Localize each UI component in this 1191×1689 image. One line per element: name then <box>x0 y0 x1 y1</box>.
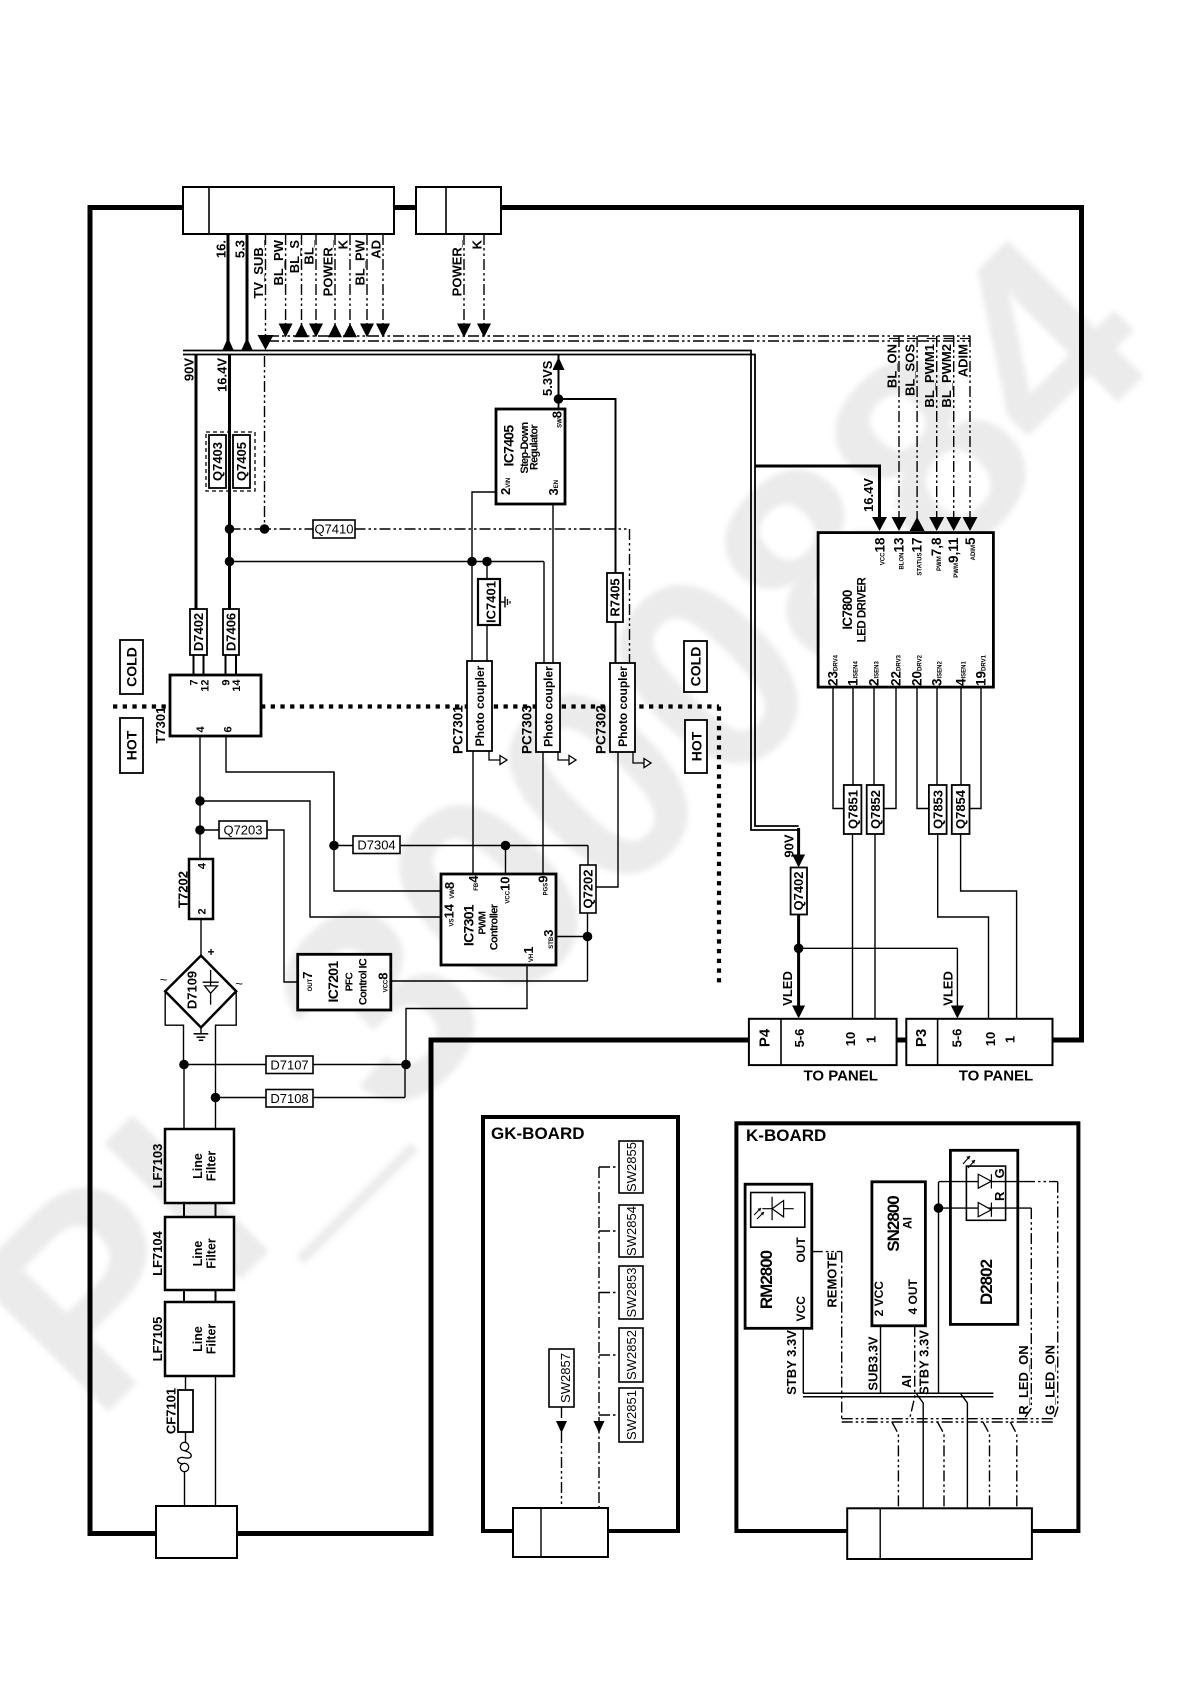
svg-text:GK-BOARD: GK-BOARD <box>491 1124 585 1143</box>
svg-text:D2802: D2802 <box>977 1259 996 1305</box>
svg-text:4: 4 <box>197 862 209 869</box>
svg-text:5-6: 5-6 <box>950 1029 965 1048</box>
svg-text:SW2857: SW2857 <box>558 1353 573 1403</box>
svg-text:AD: AD <box>369 240 384 259</box>
svg-text:TO PANEL: TO PANEL <box>959 1068 1033 1085</box>
svg-text:Line: Line <box>191 1241 205 1267</box>
svg-text:BL_S: BL_S <box>287 240 302 274</box>
svg-text:SUB3.3V: SUB3.3V <box>866 1336 881 1391</box>
svg-text:Q7402: Q7402 <box>791 871 806 910</box>
svg-text:OUT: OUT <box>794 1237 808 1263</box>
svg-text:HOT: HOT <box>124 730 140 760</box>
svg-text:K: K <box>336 239 351 249</box>
svg-text:14: 14 <box>231 679 243 692</box>
svg-text:VLED: VLED <box>780 971 795 1006</box>
svg-text:90V: 90V <box>782 834 797 857</box>
svg-text:BL_PW: BL_PW <box>353 239 368 285</box>
svg-text:BL_: BL_ <box>302 239 317 264</box>
svg-text:SW2855: SW2855 <box>624 1142 639 1192</box>
svg-text:BL_PW: BL_PW <box>271 239 286 285</box>
svg-text:2: 2 <box>197 908 209 914</box>
svg-text:D7406: D7406 <box>224 613 239 651</box>
svg-text:5-6: 5-6 <box>792 1029 807 1048</box>
svg-text:10: 10 <box>983 1032 998 1046</box>
svg-text:K: K <box>470 239 485 249</box>
svg-text:D7107: D7107 <box>270 1058 308 1073</box>
svg-text:COLD: COLD <box>688 647 704 687</box>
svg-text:Q7202: Q7202 <box>581 869 596 908</box>
svg-text:HOT: HOT <box>689 731 705 761</box>
svg-text:P3: P3 <box>913 1029 930 1047</box>
svg-text:Photo coupler: Photo coupler <box>616 666 630 747</box>
svg-text:PFC: PFC <box>345 972 356 991</box>
svg-text:AI: AI <box>899 1375 914 1388</box>
svg-text:STBY 3.3V: STBY 3.3V <box>784 1330 799 1395</box>
svg-text:D7108: D7108 <box>270 1091 308 1106</box>
svg-text:Control IC: Control IC <box>358 958 370 1005</box>
svg-text:6: 6 <box>223 726 235 732</box>
svg-text:~: ~ <box>160 972 168 987</box>
svg-text:BL_SOS: BL_SOS <box>903 344 918 396</box>
svg-text:LF7103: LF7103 <box>150 1144 165 1189</box>
svg-text:SW2854: SW2854 <box>624 1206 639 1256</box>
svg-text:R_LED_ON: R_LED_ON <box>1016 1345 1031 1414</box>
svg-text:SW2853: SW2853 <box>624 1268 639 1318</box>
svg-text:AI: AI <box>901 1217 915 1229</box>
svg-text:+: + <box>208 945 215 959</box>
svg-text:1: 1 <box>864 1036 879 1043</box>
svg-text:BL_PWM2: BL_PWM2 <box>939 344 954 408</box>
svg-text:TO PANEL: TO PANEL <box>803 1068 877 1085</box>
svg-text:Controller: Controller <box>489 903 501 950</box>
svg-text:IC7301: IC7301 <box>461 904 477 946</box>
svg-text:~: ~ <box>235 976 243 991</box>
svg-text:16.4V: 16.4V <box>215 358 230 392</box>
svg-text:POWER_: POWER_ <box>321 239 336 296</box>
svg-text:Photo coupler: Photo coupler <box>473 665 487 746</box>
svg-text:LED DRIVER: LED DRIVER <box>857 576 869 642</box>
svg-text:Q7853: Q7853 <box>931 790 946 829</box>
svg-text:TV_SUB_: TV_SUB_ <box>251 239 266 298</box>
svg-text:Line: Line <box>191 1153 205 1179</box>
svg-text:5.3VS: 5.3VS <box>540 360 555 396</box>
svg-text:COLD: COLD <box>124 647 140 687</box>
svg-text:IC7201: IC7201 <box>325 961 341 1003</box>
svg-text:T7202: T7202 <box>176 871 191 908</box>
svg-text:PC7303: PC7303 <box>520 705 535 754</box>
svg-text:2 VCC: 2 VCC <box>872 1281 886 1317</box>
svg-text:K-BOARD: K-BOARD <box>746 1126 826 1145</box>
svg-text:R7405: R7405 <box>608 578 623 616</box>
svg-text:VCC: VCC <box>794 1296 808 1322</box>
svg-text:IC7405: IC7405 <box>501 425 517 467</box>
svg-text:16.: 16. <box>214 240 229 258</box>
svg-text:16.4V: 16.4V <box>861 478 876 512</box>
svg-text:SW2852: SW2852 <box>624 1330 639 1380</box>
svg-text:IC7401: IC7401 <box>484 581 499 623</box>
svg-text:T7301: T7301 <box>153 707 168 744</box>
svg-text:Filter: Filter <box>205 1238 219 1269</box>
svg-text:RM2800: RM2800 <box>757 1250 776 1309</box>
svg-text:Photo coupler: Photo coupler <box>542 666 556 747</box>
svg-text:PC7302: PC7302 <box>594 705 609 754</box>
svg-text:STBY 3.3V: STBY 3.3V <box>917 1330 932 1395</box>
svg-text:5.3: 5.3 <box>233 240 248 258</box>
svg-text:10: 10 <box>843 1032 858 1046</box>
svg-text:D7304: D7304 <box>357 838 395 853</box>
svg-text:BL_PWM1: BL_PWM1 <box>922 344 937 408</box>
svg-text:LF7104: LF7104 <box>150 1230 165 1276</box>
svg-text:12: 12 <box>200 680 212 692</box>
svg-text:Q7410: Q7410 <box>314 522 353 537</box>
svg-text:PWM: PWM <box>478 911 489 934</box>
svg-text:G_LED_ON: G_LED_ON <box>1043 1345 1058 1415</box>
svg-text:Q7405: Q7405 <box>234 442 249 481</box>
svg-text:4: 4 <box>195 726 207 733</box>
svg-text:SW2851: SW2851 <box>624 1390 639 1440</box>
svg-text:Regulator: Regulator <box>529 424 541 470</box>
svg-text:Filter: Filter <box>205 1151 219 1182</box>
svg-text:D7109: D7109 <box>185 971 200 1009</box>
svg-text:Line: Line <box>191 1326 205 1352</box>
svg-text:4 OUT: 4 OUT <box>906 1278 920 1314</box>
svg-text:VLED: VLED <box>941 971 956 1006</box>
svg-text:R: R <box>992 1191 1007 1201</box>
svg-text:P4: P4 <box>757 1028 774 1047</box>
svg-text:REMOTE: REMOTE <box>824 1252 839 1308</box>
svg-text:BL_ON: BL_ON <box>885 344 900 388</box>
svg-text:ADIM: ADIM <box>956 344 971 377</box>
svg-text:Q7403: Q7403 <box>210 442 225 481</box>
svg-text:Q7852: Q7852 <box>868 790 883 829</box>
svg-text:Filter: Filter <box>205 1324 219 1355</box>
svg-text:D7402: D7402 <box>191 613 206 651</box>
svg-text:1: 1 <box>1003 1036 1018 1043</box>
svg-text:IC7800: IC7800 <box>840 590 855 630</box>
svg-text:CF7101: CF7101 <box>164 1388 179 1434</box>
svg-text:Q7854: Q7854 <box>953 789 968 829</box>
svg-text:POWER_: POWER_ <box>450 239 465 296</box>
svg-text:PC7301: PC7301 <box>451 705 466 754</box>
svg-text:G: G <box>992 1168 1007 1178</box>
svg-text:Q7203: Q7203 <box>223 823 262 838</box>
svg-text:90V: 90V <box>182 358 197 381</box>
svg-text:Q7851: Q7851 <box>846 790 861 829</box>
svg-text:LF7105: LF7105 <box>150 1317 165 1362</box>
